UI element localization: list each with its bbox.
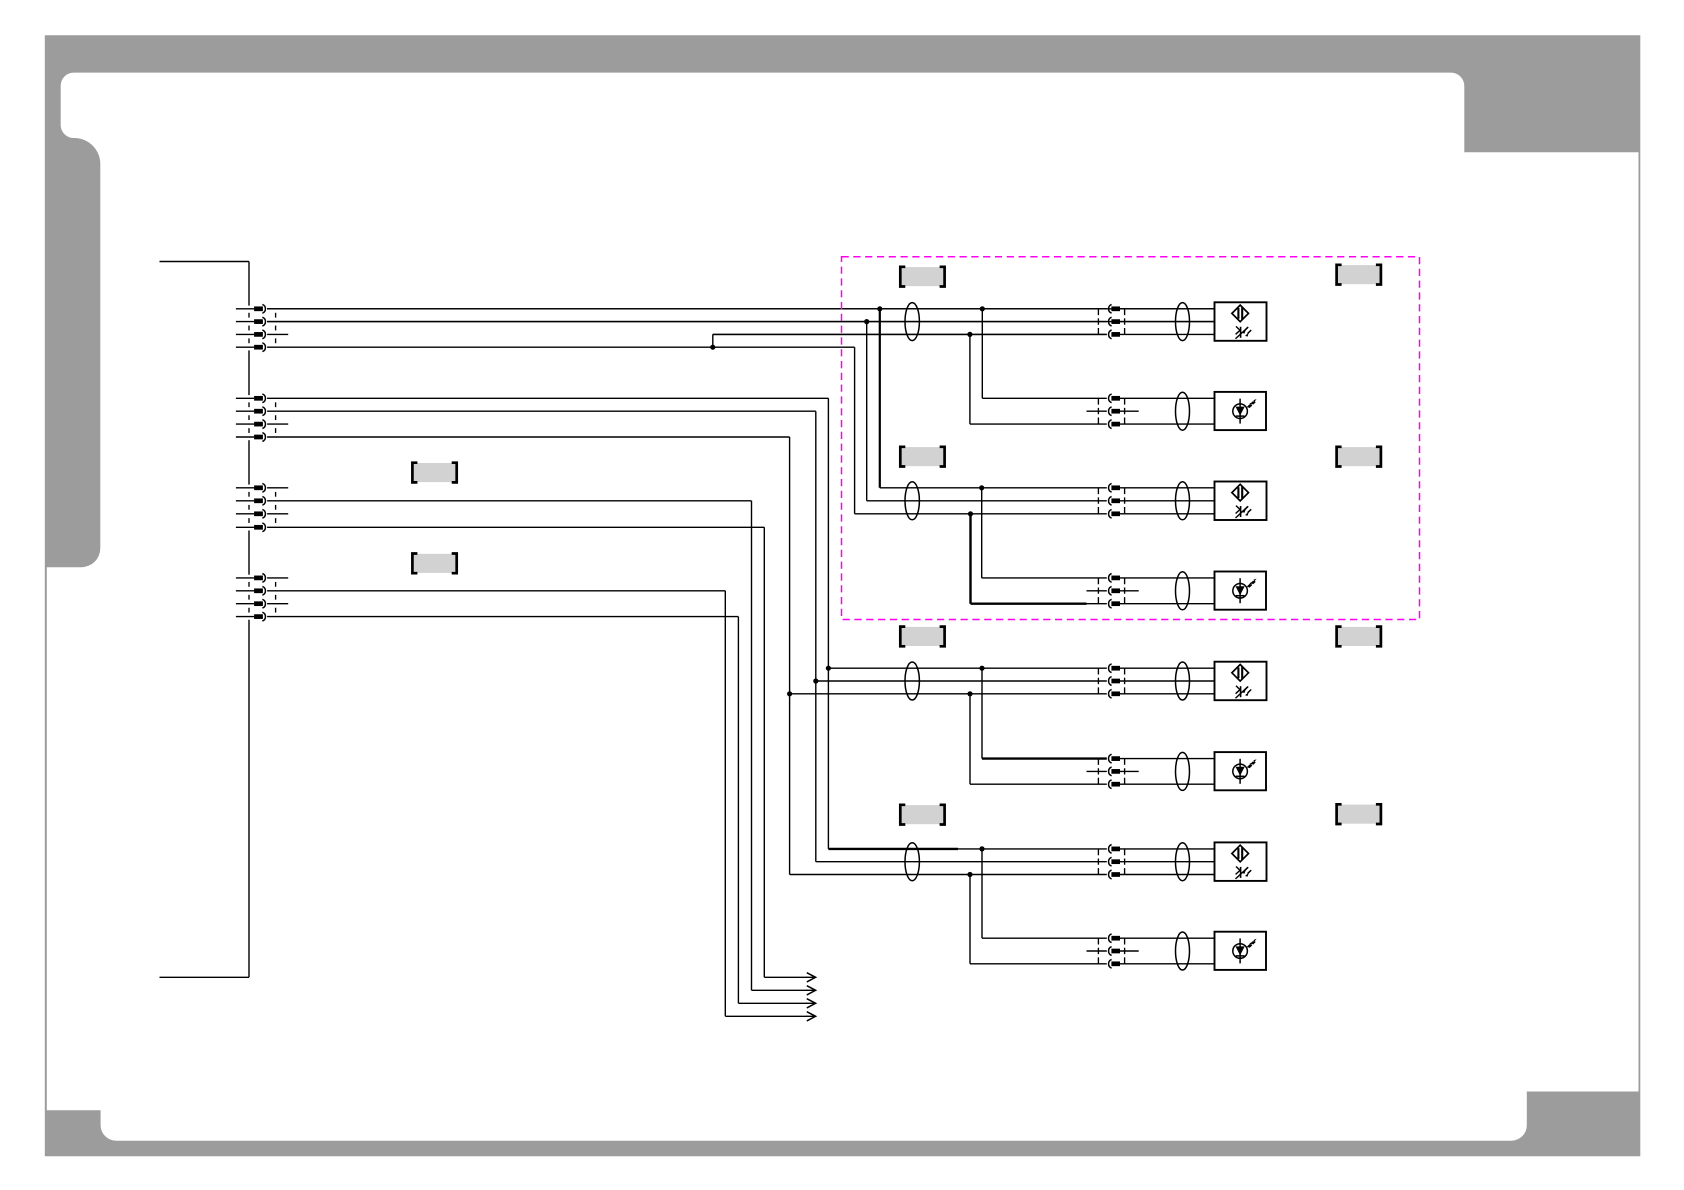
unused middle pin stub (LED2): [1087, 590, 1107, 592]
junction: [864, 319, 869, 324]
wire sensor PH3 lead 3: [790, 693, 1107, 695]
connector label (redacted) - PH1 cable: [901, 267, 944, 286]
inline connector housing (sensor PH4): [1097, 849, 1099, 875]
wire - LED2 anode feed: [981, 488, 983, 578]
wire - sensor PH1 pin3 feed: [713, 333, 1107, 335]
connector pin (sensor PH2 lead 2): [1109, 496, 1112, 505]
wire LED3 anode lead: [982, 757, 1107, 759]
wire - CN3 pin4 drop to arrow: [763, 527, 765, 977]
LED emitter LED3: [1215, 752, 1267, 790]
wire to sensor PH1 pin 3: [1120, 333, 1215, 335]
junction: [787, 691, 792, 696]
junction: [979, 485, 984, 490]
connector pin (sensor PH4 lead 3): [1109, 870, 1112, 879]
connector pin (sensor PH4 lead 2): [1109, 857, 1112, 866]
wire from CN2 pin 1: [267, 397, 828, 399]
connector CN3 pin 2: [236, 500, 254, 502]
wire to sensor PH4 pin 2: [1120, 861, 1215, 863]
wire sensor PH2 lead 3: [855, 513, 1107, 515]
wire from CN4 pin 4: [267, 616, 738, 618]
wire LED2 anode lead: [982, 577, 1107, 579]
junction: [877, 306, 882, 311]
connector label (redacted) - CN3: [413, 463, 456, 482]
connector CN3 pin 4: [236, 526, 254, 528]
connector pin (LED3 anode): [1109, 754, 1112, 763]
inline connector housing (sensor PH1): [1097, 309, 1099, 335]
wire to sensor PH2 pin 1: [1120, 487, 1215, 489]
wire from CN4 pin 1: [267, 577, 288, 579]
wire from CN4 pin 3: [267, 603, 288, 605]
unused middle pin stub (LED1): [1087, 410, 1107, 412]
connector pin (LED2 cathode): [1109, 599, 1112, 608]
inline connector housing (LED2): [1097, 578, 1099, 604]
wire sensor PH3 lead 1: [828, 667, 1106, 669]
wire - main bus segment 2: [248, 350, 250, 395]
wire to sensor PH1 pin 2: [1120, 321, 1215, 323]
wire LED2 cathode lead: [971, 603, 1087, 605]
connector CN4 housing (dashed): [248, 582, 250, 587]
wire from CN1 pin 2: [267, 321, 1214, 323]
connector CN3 housing (dashed): [248, 492, 250, 497]
wire to sensor PH3 pin 2: [1120, 680, 1215, 682]
wire - LED4 anode feed: [981, 849, 983, 938]
inline connector housing (sensor PH2): [1097, 488, 1099, 514]
cable ferrite (sensor PH3): [1176, 662, 1190, 700]
junction: [967, 332, 972, 337]
wire - CN2 pin4 drop: [789, 437, 791, 875]
connector pin (sensor PH1 lead 3): [1109, 330, 1112, 339]
wire sensor PH2 lead 1: [880, 487, 1107, 489]
wire - arrow to next page (CN3 pin4): [764, 976, 807, 978]
wire from CN2 pin 4: [267, 436, 790, 438]
LED emitter LED1: [1215, 392, 1267, 430]
wire - jog up to sensor PH1 pin3: [712, 334, 714, 347]
cable ferrite (LED3): [1176, 752, 1190, 790]
wire sensor PH4 lead 1: [828, 848, 958, 850]
connector label (redacted) - PH3 cable: [901, 627, 944, 646]
junction: [968, 511, 973, 516]
wire to sensor PH4 pin 3: [1120, 874, 1215, 876]
wire to sensor PH1 pin 1: [1120, 308, 1215, 310]
wire - main bus segment 4: [248, 531, 250, 575]
wire - LED2 cathode feed: [969, 514, 971, 604]
junction: [710, 345, 715, 350]
wire - bus stub to main PCB (top): [160, 261, 250, 263]
wire - bus stub to main PCB (bottom): [160, 976, 250, 978]
LED emitter LED2: [1215, 572, 1267, 610]
wire - arrow to next page (CN3 pin2): [752, 989, 808, 991]
wire from CN1 pin 3: [267, 333, 288, 335]
connector pin (sensor PH1 lead 2): [1109, 317, 1112, 326]
wire from CN2 pin 2: [267, 410, 816, 412]
wire - LED3 anode feed: [981, 668, 983, 758]
connector CN3 pin 1: [236, 487, 254, 489]
wire from CN4 pin 2: [267, 590, 725, 592]
connector CN2 housing (dashed): [248, 402, 250, 407]
wire - branch down to sensor PH2 row2: [866, 322, 868, 501]
photo sensor PH1 (receiver): [1215, 302, 1267, 341]
cable bundle sensor PH2: [905, 482, 919, 520]
wire sensor PH4 lead 2: [816, 861, 1107, 863]
connector CN1 pin 4: [236, 346, 254, 348]
connector label (redacted) - PH4 cable: [901, 805, 944, 824]
cable bundle sensor PH1: [905, 303, 919, 341]
cable ferrite (sensor PH1): [1176, 303, 1190, 341]
connector pin (sensor PH3 lead 2): [1109, 677, 1112, 686]
wire - LED3 cathode feed: [969, 694, 971, 784]
cable bundle sensor PH3: [905, 662, 919, 700]
wire - branch down to sensor PH2 row3: [854, 347, 856, 514]
connector CN1 pin 2: [236, 321, 254, 323]
unused middle pin stub (LED4): [1087, 950, 1107, 952]
connector label (redacted) - CN4: [413, 554, 456, 573]
connector pin (sensor PH1 lead 1): [1109, 304, 1112, 313]
wire to sensor PH4 pin 1: [1120, 848, 1215, 850]
wire to sensor PH3 pin 3: [1120, 693, 1215, 695]
junction: [813, 678, 818, 683]
connector pin (sensor PH2 lead 1): [1109, 483, 1112, 492]
wire from CN3 pin 3: [267, 513, 288, 515]
inline connector housing (LED3): [1097, 759, 1099, 785]
junction: [967, 872, 972, 877]
cable ferrite (LED2): [1176, 572, 1190, 610]
connector pin (LED1 cathode): [1109, 420, 1112, 429]
connector CN2 pin 4: [236, 436, 254, 438]
junction: [980, 306, 985, 311]
connector pin (sensor PH4 lead 1): [1109, 845, 1112, 854]
wire - CN4 pin2 drop to arrow: [724, 591, 726, 1017]
cable ferrite (sensor PH2): [1176, 482, 1190, 520]
wire sensor PH3 lead 2: [816, 680, 1107, 682]
duplex unit boundary (dashed): [842, 257, 1420, 620]
inline connector housing (LED4): [1097, 938, 1099, 964]
wire LED4 cathode lead: [970, 963, 1107, 965]
connector label (redacted) - PH4 sensor: [1338, 805, 1381, 824]
wire sensor PH1 lead 2: [267, 321, 1107, 323]
connector CN1 pin 1: [236, 308, 254, 310]
connector CN4 pin 3: [236, 603, 254, 605]
connector label (redacted) - PH2 sensor: [1338, 447, 1381, 466]
wire sensor PH2 lead 2: [867, 500, 1107, 502]
inline connector housing (LED1): [1097, 398, 1099, 424]
connector pin (LED1 anode): [1109, 394, 1112, 403]
unused middle pin stub (LED3): [1087, 770, 1107, 772]
cable ferrite (LED1): [1176, 392, 1190, 430]
wire - branch down to sensor PH2 row1: [879, 309, 881, 488]
wire - LED1 cathode feed: [969, 334, 971, 424]
photo sensor PH3 (receiver): [1215, 662, 1267, 701]
wire - LED4 cathode feed: [969, 875, 971, 964]
wire LED1 anode lead: [982, 397, 1107, 399]
cable ferrite (sensor PH4): [1176, 843, 1190, 881]
connector CN4 pin 2: [236, 590, 254, 592]
junction: [979, 846, 984, 851]
wire to sensor PH3 pin 1: [1120, 667, 1215, 669]
connector CN3 pin 3: [236, 513, 254, 515]
wire LED3 cathode lead: [970, 783, 1107, 785]
wire sensor PH1 lead 3: [713, 333, 1107, 335]
connector CN2 pin 3: [236, 423, 254, 425]
wire - main bus segment 1: [248, 262, 250, 306]
connector pin (sensor PH3 lead 1): [1109, 664, 1112, 673]
connector CN1 pin 3: [236, 333, 254, 335]
wire - main bus segment 3: [248, 440, 250, 484]
wire from CN3 pin 2: [267, 500, 751, 502]
wire to sensor PH2 pin 3: [1120, 513, 1215, 515]
junction: [979, 666, 984, 671]
wire - main bus segment 5: [248, 620, 250, 978]
wire - CN3 pin2 drop to arrow: [751, 501, 753, 991]
wire from CN1 pin 1: [267, 308, 1214, 310]
photo sensor PH4 (receiver): [1215, 842, 1267, 881]
connector CN1 housing (dashed): [248, 313, 250, 318]
wire - CN2 pin1 drop: [827, 398, 829, 849]
wire from CN3 pin 4: [267, 526, 764, 528]
connector pin (LED4 cathode): [1109, 959, 1112, 968]
wire - arrow to next page (CN4 pin2): [725, 1015, 807, 1017]
wire - LED1 anode feed: [981, 309, 983, 399]
junction: [826, 666, 831, 671]
connector pin (LED2 anode): [1109, 574, 1112, 583]
cable ferrite (LED4): [1176, 932, 1190, 970]
wire from CN3 pin 1: [267, 487, 288, 489]
wire - CN4 pin4 drop to arrow: [737, 617, 739, 1004]
wire - arrow to next page (CN4 pin4): [738, 1002, 807, 1004]
connector pin (sensor PH2 lead 3): [1109, 509, 1112, 518]
photo sensor PH2 (receiver): [1215, 482, 1267, 521]
wire - CN2 pin2 drop: [815, 411, 817, 862]
connector pin (LED3 cathode): [1109, 780, 1112, 789]
connector CN4 pin 1: [236, 577, 254, 579]
wire LED4 anode lead: [982, 937, 1107, 939]
connector CN2 pin 2: [236, 410, 254, 412]
connector CN4 pin 4: [236, 616, 254, 618]
connector pin (sensor PH3 lead 3): [1109, 689, 1112, 698]
inline connector housing (sensor PH3): [1097, 668, 1099, 694]
wire sensor PH4 lead 3: [790, 874, 1107, 876]
connector label (redacted) - PH2 cable: [901, 447, 944, 466]
junction: [967, 691, 972, 696]
wire from CN1 pin 4: [267, 346, 855, 348]
connector CN2 pin 1: [236, 397, 254, 399]
cable bundle sensor PH4: [905, 843, 919, 881]
LED emitter LED4: [1215, 932, 1267, 970]
wire from CN2 pin 3: [267, 423, 288, 425]
connector label (redacted) - PH3 sensor: [1338, 627, 1381, 646]
connector pin (LED4 anode): [1109, 934, 1112, 943]
wire LED1 cathode lead: [970, 423, 1107, 425]
wire to sensor PH2 pin 2: [1120, 500, 1215, 502]
connector label (redacted) - PH1 sensor: [1338, 265, 1381, 284]
wire sensor PH1 lead 1: [267, 308, 1107, 310]
